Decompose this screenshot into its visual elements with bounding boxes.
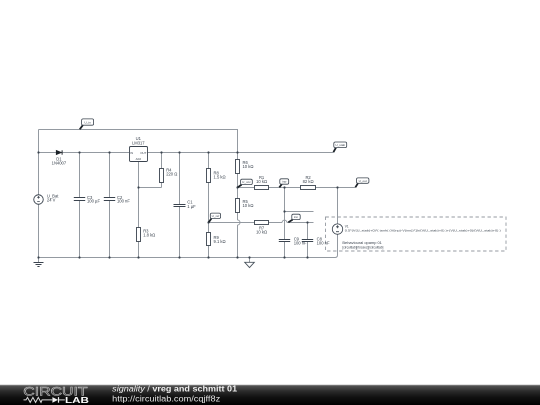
svg-text:82 kΩ: 82 kΩ	[303, 179, 314, 184]
svg-text:0.5*(V(U_stab)+0)*( tanh( (V(i: 0.5*(V(U_stab)+0)*( tanh( (V(inp)-V(inn)…	[345, 229, 501, 233]
svg-text:100 µF: 100 µF	[87, 199, 100, 204]
svg-text:1.5 kΩ: 1.5 kΩ	[214, 175, 226, 180]
svg-text:220 Ω: 220 Ω	[166, 171, 177, 176]
svg-text:signality / vreg and schmitt 0: signality / vreg and schmitt 01	[112, 384, 238, 393]
svg-text:100 nF: 100 nF	[117, 199, 130, 204]
svg-text:V1: V1	[345, 224, 349, 228]
svg-text:10 kΩ: 10 kΩ	[243, 164, 254, 169]
svg-text:1 µF: 1 µF	[187, 204, 196, 209]
svg-text:9.1 kΩ: 9.1 kΩ	[214, 239, 226, 244]
svg-text:Behavioural opamp 01: Behavioural opamp 01	[342, 241, 382, 245]
svg-text:ADJ: ADJ	[136, 157, 142, 161]
svg-text:U_ref: U_ref	[212, 214, 220, 218]
svg-text:[circuitlab][rtnsavc][/circuit: [circuitlab][rtnsavc][/circuitlab]	[342, 245, 383, 249]
svg-text:LM317: LM317	[132, 140, 145, 145]
svg-text:U_stab: U_stab	[335, 143, 345, 147]
svg-text:1.8 kΩ: 1.8 kΩ	[143, 232, 155, 237]
svg-text:10 kΩ: 10 kΩ	[256, 229, 267, 234]
svg-text:U_vcc: U_vcc	[242, 180, 251, 184]
svg-text:OUT: OUT	[140, 151, 146, 155]
svg-text:100 nF: 100 nF	[317, 240, 330, 245]
svg-text:1N4007: 1N4007	[52, 161, 67, 166]
svg-text:IN: IN	[130, 151, 133, 155]
svg-text:24 V: 24 V	[47, 197, 56, 202]
svg-text:10 kΩ: 10 kΩ	[243, 203, 254, 208]
svg-text:http://circuitlab.com/cqjff8z: http://circuitlab.com/cqjff8z	[112, 394, 220, 403]
svg-text:U_in: U_in	[84, 120, 91, 124]
svg-text:100 nF: 100 nF	[294, 240, 307, 245]
svg-text:LAB: LAB	[65, 396, 90, 405]
svg-text:inp: inp	[282, 180, 286, 184]
svg-text:U_out: U_out	[359, 179, 367, 183]
svg-text:10 kΩ: 10 kΩ	[256, 179, 267, 184]
svg-text:inn: inn	[294, 215, 298, 219]
